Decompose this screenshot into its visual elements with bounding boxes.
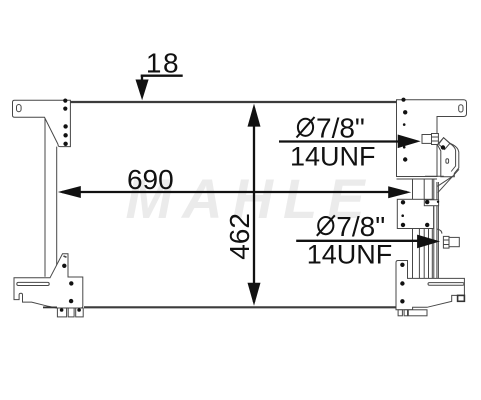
svg-text:14UNF: 14UNF — [290, 141, 376, 171]
svg-text:7/8": 7/8" — [316, 113, 365, 144]
svg-text:7/8": 7/8" — [336, 211, 385, 242]
svg-text:18: 18 — [146, 47, 180, 78]
svg-text:14UNF: 14UNF — [307, 240, 393, 270]
svg-text:690: 690 — [127, 164, 174, 195]
svg-text:462: 462 — [224, 213, 255, 260]
